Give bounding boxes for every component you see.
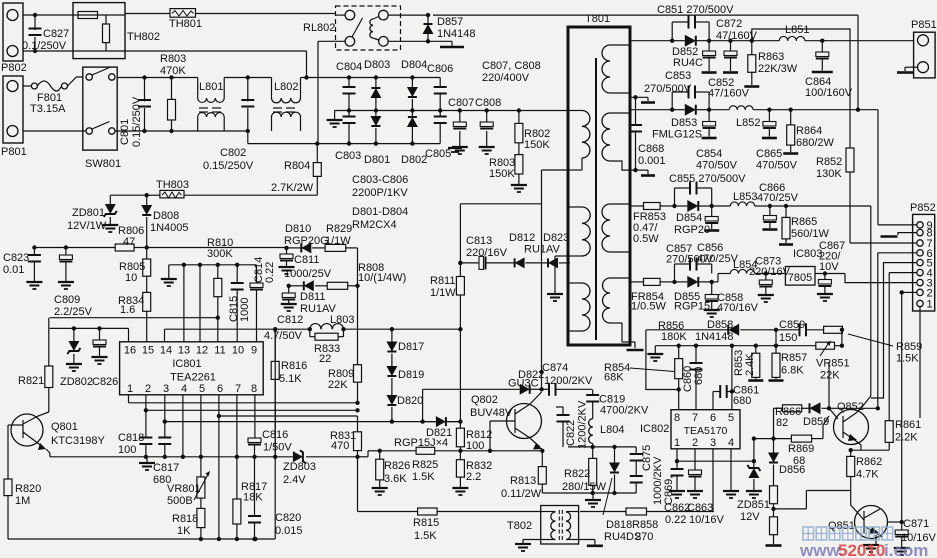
svg-text:R815: R815 [413, 517, 439, 529]
svg-text:10/(1/4W): 10/(1/4W) [358, 272, 406, 284]
wire pin3 row [825, 273, 845, 275]
wire pin3 [163, 395, 461, 424]
resistor R853 2.4K [733, 346, 763, 381]
connector P852 [910, 202, 936, 311]
svg-text:5: 5 [728, 412, 734, 424]
wire [712, 274, 731, 282]
svg-text:L851: L851 [785, 24, 809, 36]
svg-text:2.7K/2W: 2.7K/2W [271, 182, 314, 194]
svg-text:D811: D811 [300, 291, 325, 303]
svg-text:5: 5 [199, 383, 205, 395]
wire pin5 column [730, 344, 734, 410]
svg-text:0.15/250V: 0.15/250V [203, 160, 254, 172]
diode D819 [386, 354, 424, 382]
diode D854 RGP20 [674, 200, 714, 236]
wire [433, 15, 860, 112]
ground [585, 493, 601, 507]
svg-text:L802: L802 [274, 81, 298, 93]
svg-text:TH801: TH801 [169, 18, 202, 30]
resistor R862 4.7K [847, 450, 883, 490]
svg-text:1/0.5W: 1/0.5W [631, 301, 666, 313]
svg-text:2.2: 2.2 [466, 471, 481, 483]
wire bridge bottom bus [248, 141, 440, 145]
capacitor C818 100 [118, 410, 152, 457]
svg-text:D857: D857 [437, 16, 463, 28]
potentiometer VR801 500B [167, 457, 210, 507]
svg-text:8: 8 [251, 383, 257, 395]
svg-text:FMLG12S: FMLG12S [652, 129, 702, 141]
svg-text:0.01: 0.01 [3, 264, 24, 276]
svg-text:R811: R811 [430, 275, 455, 287]
svg-text:1/1W: 1/1W [430, 287, 456, 299]
label component values [352, 174, 408, 231]
wire ZD802 row [50, 326, 129, 330]
svg-text:1/1W: 1/1W [325, 235, 351, 247]
wire [274, 329, 276, 539]
capacitor C853 270/500V [644, 70, 709, 110]
chassis ground [579, 540, 603, 546]
wire main DC bus [335, 110, 570, 112]
capacitor C817 680 [153, 422, 179, 486]
svg-text:L803: L803 [330, 314, 354, 326]
svg-text:470/16V: 470/16V [717, 302, 759, 314]
wire [568, 445, 636, 449]
svg-text:0.001: 0.001 [638, 155, 666, 167]
svg-text:1N4148: 1N4148 [695, 331, 734, 343]
svg-text:1.6: 1.6 [120, 304, 135, 316]
zener ZD851 12V [737, 461, 770, 523]
T801 primary winding 1 [568, 111, 590, 171]
svg-text:0.5W: 0.5W [633, 233, 659, 245]
wire [822, 40, 913, 42]
svg-text:100/160V: 100/160V [805, 87, 853, 99]
svg-text:T3.15A: T3.15A [30, 103, 66, 115]
svg-text:R861: R861 [895, 419, 921, 431]
svg-text:12V/1W: 12V/1W [67, 220, 107, 232]
transistor Q852 [829, 401, 869, 445]
svg-text:1200/2KV: 1200/2KV [544, 375, 593, 387]
svg-text:L804: L804 [600, 424, 624, 436]
node [304, 51, 308, 80]
svg-text:180K: 180K [661, 331, 687, 343]
svg-text:470: 470 [331, 440, 349, 452]
svg-text:C854: C854 [696, 148, 722, 160]
svg-text:300K: 300K [207, 248, 233, 260]
capacitor C804 [336, 61, 362, 113]
resistor R802 150K [515, 108, 550, 151]
svg-text:220/400V: 220/400V [482, 72, 530, 84]
wire primary top feed [542, 169, 569, 171]
svg-text:C807, C808: C807, C808 [482, 60, 541, 72]
wire ZD851 row [677, 459, 756, 463]
wire IC802 pin4 [723, 449, 739, 498]
resistor R829 1/1W [325, 223, 358, 251]
capacitor C858 470/16V [704, 282, 759, 317]
svg-text:R852: R852 [816, 156, 842, 168]
svg-text:470/25V: 470/25V [757, 192, 799, 204]
svg-text:T802: T802 [507, 520, 532, 532]
resistor R831 470 [330, 401, 362, 459]
svg-text:68K: 68K [604, 372, 624, 384]
resistor R806 47 [115, 225, 147, 251]
svg-text:L853: L853 [733, 191, 757, 203]
wire pin16 [128, 328, 130, 341]
svg-text:1000: 1000 [239, 298, 251, 322]
svg-text:ZD801: ZD801 [72, 207, 105, 219]
potentiometer VR851 22K [816, 328, 850, 382]
svg-text:D801: D801 [364, 154, 390, 166]
svg-text:15: 15 [142, 345, 154, 357]
IC IC801 TEA2261 [120, 342, 264, 395]
svg-text:10: 10 [125, 272, 137, 284]
diode D812 [509, 232, 561, 268]
svg-text:6.8K: 6.8K [781, 365, 804, 377]
wire D811 row [287, 284, 304, 288]
label R854 68K [604, 362, 674, 384]
svg-text:R826: R826 [384, 460, 410, 472]
diode D852 RU4C [672, 35, 711, 69]
svg-text:C822: C822 [565, 420, 577, 446]
svg-text:C813: C813 [466, 235, 492, 247]
svg-text:22K: 22K [820, 370, 840, 382]
svg-text:0.11/2W: 0.11/2W [501, 488, 542, 500]
wire [752, 436, 756, 461]
diode D808 1N4005 [141, 195, 188, 247]
svg-text:2: 2 [692, 437, 698, 449]
wire pin13 [183, 265, 185, 342]
capacitor C871 10/16V [894, 518, 937, 555]
svg-text:C863: C863 [687, 502, 713, 514]
svg-text:3.6K: 3.6K [384, 473, 407, 485]
svg-text:47/160V: 47/160V [708, 88, 750, 100]
resistor pin11 [214, 265, 222, 342]
wire pin7 [235, 395, 239, 499]
wire pin1 [919, 307, 921, 419]
resistor R816 5.1K [271, 329, 307, 457]
svg-text:R822: R822 [564, 468, 590, 480]
svg-text:7: 7 [692, 412, 698, 424]
svg-text:P852: P852 [910, 202, 936, 214]
wire [849, 445, 890, 452]
resistor R805 10 [119, 245, 151, 284]
watermark [799, 527, 928, 558]
diode D802 [401, 111, 427, 167]
ground [139, 457, 155, 470]
wire R806 row [32, 245, 115, 249]
wire pin4 [181, 395, 185, 459]
resistor R803 470K [160, 53, 186, 133]
capacitor C805 [425, 111, 462, 161]
svg-text:1000/25V: 1000/25V [284, 268, 332, 280]
svg-text:1N4148: 1N4148 [437, 28, 476, 40]
wire top bus [336, 77, 441, 79]
resistor R820 1M [4, 425, 41, 539]
svg-text:R804: R804 [284, 160, 310, 172]
svg-text:RGP20G: RGP20G [284, 235, 329, 247]
svg-text:0.22: 0.22 [264, 262, 276, 283]
capacitor C819 4700/2KV [586, 389, 649, 416]
capacitor C809 [54, 248, 93, 319]
svg-text:220/16V: 220/16V [466, 247, 508, 259]
svg-text:C817: C817 [153, 462, 179, 474]
capacitor C867 220/10V [815, 240, 845, 301]
capacitor C816 [248, 429, 292, 459]
wire pin7 [752, 29, 917, 243]
svg-text:C823: C823 [3, 252, 29, 264]
svg-text:10: 10 [232, 345, 244, 357]
capacitor C803 [335, 111, 361, 163]
resistor R812 100 [456, 422, 492, 453]
svg-text:R825: R825 [412, 459, 438, 471]
svg-text:R820: R820 [15, 483, 41, 495]
svg-text:C853: C853 [665, 70, 691, 82]
node [273, 455, 277, 459]
svg-text:470K: 470K [160, 65, 186, 77]
svg-text:D808: D808 [153, 210, 179, 222]
wire aux row [460, 203, 541, 205]
svg-text:R864: R864 [796, 125, 822, 137]
svg-text:150K: 150K [524, 139, 550, 151]
transformer T801 [568, 13, 630, 345]
wire row3 [630, 205, 644, 207]
svg-text:4.7K: 4.7K [856, 469, 879, 481]
inductor L802 [272, 78, 301, 132]
resistor R804 2.7K [184, 144, 321, 196]
svg-text:500B: 500B [167, 495, 193, 507]
capacitor C808 [475, 97, 501, 154]
capacitor C856 470/25V [697, 206, 739, 265]
svg-text:RM2CX4: RM2CX4 [352, 219, 397, 231]
wire Q802 collector column [539, 170, 543, 389]
svg-text:270: 270 [635, 531, 653, 543]
resistor R822 280/15W [562, 447, 607, 495]
resistor R869 68 [788, 435, 814, 467]
resistor R857 6.8K [769, 346, 808, 381]
svg-text:C868: C868 [638, 143, 664, 155]
capacitor C872 47/160V [716, 18, 758, 73]
svg-text:1: 1 [927, 299, 933, 311]
svg-text:1: 1 [674, 437, 680, 449]
svg-text:RL802: RL802 [303, 22, 335, 34]
wire C871 column [900, 290, 918, 530]
capacitor C866 470/25V [757, 182, 799, 230]
svg-text:C826: C826 [92, 376, 118, 388]
resistor R815 1.5K [358, 508, 440, 542]
svg-text:GU3C: GU3C [508, 378, 539, 390]
diode D803 [364, 59, 390, 113]
svg-text:D854: D854 [676, 212, 702, 224]
diode D858 1N4148 [695, 319, 778, 343]
svg-text:2.4V: 2.4V [283, 474, 306, 486]
svg-text:3: 3 [710, 437, 716, 449]
resistor R813 0.11/2W [501, 451, 546, 500]
resistor R863 22K/3W [744, 41, 797, 87]
resistor R817 18K [233, 481, 267, 541]
wire [770, 204, 871, 396]
capacitor C823 [3, 248, 42, 290]
diode D817 [386, 329, 424, 353]
svg-text:KTC3198Y: KTC3198Y [51, 435, 105, 447]
svg-text:C818: C818 [118, 432, 144, 444]
inductor L854 [730, 259, 768, 276]
svg-text:2: 2 [145, 383, 151, 395]
svg-text:C874: C874 [542, 362, 568, 374]
ground [161, 265, 177, 286]
svg-text:150K: 150K [489, 168, 515, 180]
wire pin12 [199, 265, 201, 342]
diode D857 1N4148 [423, 13, 476, 44]
svg-text:D856: D856 [779, 464, 805, 476]
svg-text:D853: D853 [671, 117, 697, 129]
wire [771, 408, 775, 441]
svg-text:C865: C865 [756, 148, 782, 160]
chassis pin8 [881, 233, 918, 237]
svg-text:D804: D804 [401, 59, 427, 71]
svg-text:C801: C801 [119, 119, 131, 145]
capacitor C827 [22, 13, 69, 53]
diode D804 [401, 59, 427, 113]
svg-text:D810: D810 [285, 223, 311, 235]
svg-text:270/500V: 270/500V [666, 254, 714, 266]
capacitor C820 0.015 [248, 457, 303, 541]
wire pin5 [199, 395, 203, 459]
svg-text:R869: R869 [788, 443, 814, 455]
svg-text:i.com: i.com [884, 541, 928, 558]
svg-text:C804: C804 [336, 61, 362, 73]
wire [125, 50, 307, 52]
capacitor C806 [427, 63, 453, 113]
wire R815 column [357, 457, 359, 512]
svg-text:P801: P801 [1, 146, 27, 158]
label C807 C808 values [482, 60, 541, 84]
svg-text:270/500V: 270/500V [644, 83, 692, 95]
svg-text:R818: R818 [172, 513, 198, 525]
svg-text:150: 150 [779, 332, 797, 344]
svg-text:12: 12 [196, 345, 208, 357]
svg-text:TEA2261: TEA2261 [170, 372, 216, 384]
wire [115, 130, 248, 132]
svg-text:R858: R858 [632, 519, 658, 531]
svg-text:TH802: TH802 [127, 31, 160, 43]
svg-text:C802: C802 [220, 147, 246, 159]
svg-text:560/1W: 560/1W [791, 228, 830, 240]
svg-text:D801-D804: D801-D804 [352, 206, 408, 218]
wire [117, 77, 198, 79]
svg-text:C808: C808 [475, 97, 501, 109]
resistor R811 1/1W [430, 275, 464, 331]
svg-text:BUV48V: BUV48V [470, 407, 513, 419]
ground [428, 41, 464, 47]
resistor R833 22 [310, 327, 346, 365]
thermistor TH803 [147, 179, 189, 198]
inductor L851 [752, 24, 825, 43]
svg-text:4700/2KV: 4700/2KV [600, 405, 649, 417]
svg-text:D819: D819 [398, 369, 424, 381]
svg-text:D818: D818 [606, 519, 632, 531]
resistor [770, 509, 778, 544]
svg-text:13: 13 [178, 345, 190, 357]
svg-text:130K: 130K [816, 168, 842, 180]
capacitor C857 270/500V [666, 243, 714, 282]
svg-text:52010: 52010 [838, 541, 885, 558]
svg-text:IC801: IC801 [172, 358, 201, 370]
svg-text:C851 270/500V: C851 270/500V [657, 4, 734, 16]
diode D811 RU1AV [300, 280, 337, 315]
capacitor C822 [556, 400, 589, 449]
svg-text:1M: 1M [15, 495, 30, 507]
svg-text:0.1/250V: 0.1/250V [22, 40, 67, 52]
svg-text:8: 8 [674, 412, 680, 424]
capacitor C859 150 [776, 319, 824, 344]
svg-text:100: 100 [118, 444, 136, 456]
wire T802 row [437, 511, 626, 513]
svg-text:D820: D820 [397, 395, 423, 407]
connector P802 [1, 3, 27, 74]
svg-text:D812: D812 [509, 232, 535, 244]
svg-text:IC803: IC803 [793, 248, 822, 260]
svg-text:C812: C812 [277, 314, 303, 326]
wire D822 row [423, 389, 520, 421]
svg-text:4: 4 [728, 437, 734, 449]
svg-text:0.15/250V: 0.15/250V [131, 96, 143, 147]
capacitor C854 470/50V [696, 110, 738, 172]
wire L803 row [165, 327, 312, 331]
svg-text:1200/2KV: 1200/2KV [577, 400, 589, 449]
T801 secondary winding 1 [602, 41, 630, 98]
svg-text:9: 9 [251, 345, 257, 357]
svg-text:C871: C871 [903, 518, 929, 530]
switch SW801 [23, 67, 121, 170]
svg-text:C805: C805 [425, 148, 451, 160]
svg-text:280/15W: 280/15W [562, 481, 607, 493]
wire [774, 330, 778, 348]
svg-text:C807: C807 [448, 97, 474, 109]
svg-text:C859: C859 [779, 319, 805, 331]
svg-text:R859: R859 [896, 341, 922, 353]
resistor FR854 1/0.5W [631, 278, 677, 312]
svg-text:12V: 12V [740, 511, 760, 523]
wire pin2 [144, 395, 358, 413]
capacitor C855 270/500V [669, 173, 746, 206]
regulator IC803 7805 [766, 248, 823, 285]
svg-text:P851: P851 [911, 19, 937, 31]
wire pin row [169, 263, 257, 267]
diode D855 RGP15 [674, 276, 714, 313]
wire [0, 0, 1, 1]
svg-text:2.2/25V: 2.2/25V [54, 306, 93, 318]
resistor R821 [18, 318, 53, 412]
wire R825 row [358, 449, 417, 457]
svg-text:C827: C827 [43, 28, 69, 40]
resistor R866 82 [774, 405, 810, 429]
transistor Q801 KTC3198Y [10, 412, 105, 457]
resistor R858 270 [626, 508, 714, 543]
svg-text:47: 47 [123, 236, 135, 248]
svg-text:VR851: VR851 [816, 358, 850, 370]
wire [240, 247, 287, 249]
svg-text:RU1AV: RU1AV [524, 244, 561, 256]
svg-text:22K: 22K [328, 379, 348, 391]
capacitor C862 0.22 [664, 461, 690, 526]
svg-text:Q852: Q852 [837, 401, 864, 413]
capacitor C801 [119, 75, 151, 147]
diode D859 [803, 402, 878, 428]
inductor L803 [310, 314, 355, 329]
wire bottom bus [8, 537, 275, 541]
svg-text:ZD851: ZD851 [737, 499, 770, 511]
thermistor TH801 [125, 9, 336, 30]
diode D810 RGP20G [284, 223, 329, 253]
